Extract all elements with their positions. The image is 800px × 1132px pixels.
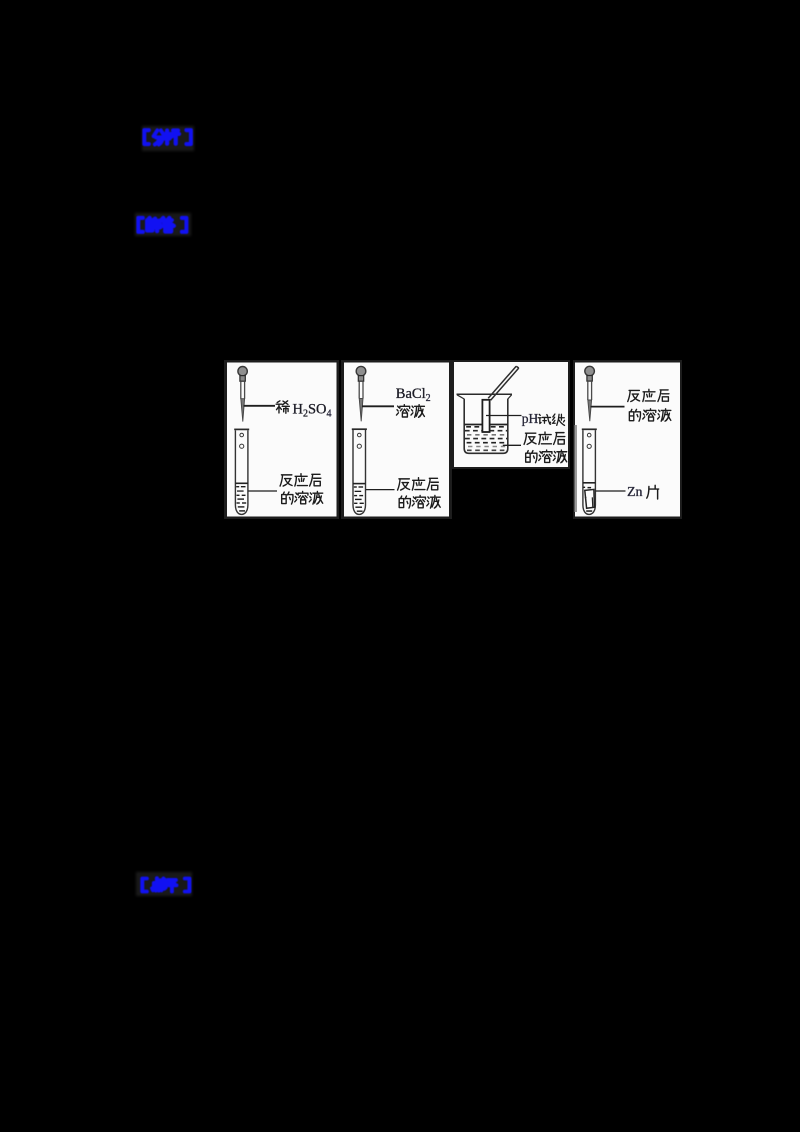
dropper D4 tube [588, 381, 592, 400]
leader line to 反应后的溶液 [248, 490, 277, 492]
liquid dashes T1 [236, 486, 246, 512]
test tube T1 body [235, 430, 248, 514]
panel 2 frame [341, 360, 452, 519]
test tube T4 rim [582, 428, 597, 430]
leader line to 的溶液 (P3) [503, 444, 521, 446]
svg-text:H2SO4: H2SO4 [293, 402, 332, 420]
Zn strip inner edge [585, 497, 593, 507]
dropper D4 liquid tip [588, 400, 592, 421]
beaker rim [457, 393, 513, 395]
dropper D2 collar [358, 376, 363, 382]
label 的溶液 (P1) [282, 491, 323, 504]
glass rod [488, 366, 519, 400]
blue marker 2 halo [135, 213, 191, 236]
dropper D4 bulb [585, 366, 595, 376]
panel 2 contents [352, 366, 440, 514]
test tube T1 rim [234, 428, 249, 430]
liquid level line T1 [235, 482, 248, 484]
bubbles in tube T4 [587, 433, 591, 437]
leader line to BaCl2 溶液 [362, 405, 394, 407]
liquid level line in beaker [464, 424, 508, 426]
blue marker 3 halo [136, 872, 192, 896]
beaker body [464, 399, 508, 454]
leader line to Zn 片 [596, 490, 626, 492]
blue marker 1 【分析】 [144, 130, 191, 144]
panel 1 frame [224, 360, 339, 519]
leader line to 反应后的溶液 (P2) [366, 489, 395, 491]
leader line to 稀 H2SO4 [244, 405, 276, 407]
pH paper strip [482, 400, 489, 432]
blue marker 2 【解答】 [138, 218, 186, 232]
liquid dashes T2 [354, 486, 364, 512]
dropper D1 bulb [238, 367, 247, 376]
label 反应后 (P3) [524, 432, 565, 444]
leader line to pH试纸 [486, 415, 522, 417]
dropper D2 tube [359, 381, 363, 398]
panel 4 contents [582, 366, 671, 514]
dropper D1 liquid tip [241, 399, 245, 422]
Zn strip [585, 489, 595, 508]
test tube T2 rim [352, 428, 367, 430]
svg-text:Zn: Zn [627, 485, 643, 500]
panel 3 frame [452, 360, 570, 469]
blue marker 3 【点评】 [142, 878, 189, 891]
small dashes above Zn [583, 487, 585, 488]
beaker left spout flare [457, 395, 464, 399]
panel 1 contents [234, 367, 331, 515]
liquid level line T4 [583, 482, 596, 484]
leader line to 反应后的溶液 (P4) [591, 406, 625, 408]
test tube T2 body [353, 430, 366, 514]
liquid level line T2 [353, 483, 366, 485]
beaker right flare [508, 395, 512, 399]
label 反应后 (P4) [628, 389, 669, 401]
svg-text:pH: pH [522, 411, 539, 426]
blue marker 1 halo [142, 126, 194, 151]
test tube T4 body [583, 430, 596, 514]
dropper D1 collar [240, 376, 245, 382]
label 的溶液 (P3) [526, 450, 567, 463]
panel 4 frame [573, 360, 682, 519]
bubbles in tube T2 [358, 433, 362, 437]
dropper D2 bulb [356, 366, 366, 376]
label 反应后 (P2) [398, 478, 439, 490]
bottom dash in tube T4 [586, 510, 592, 512]
label 稀 H2SO4 [276, 401, 289, 413]
label 的溶液 (P2) [399, 495, 440, 508]
dropper D4 collar [587, 376, 592, 382]
dropper D1 tube [241, 381, 245, 399]
label 反应后 (P1) [280, 474, 321, 486]
svg-text:BaCl2: BaCl2 [396, 386, 431, 404]
panel 3 contents [457, 366, 567, 462]
liquid dashes in beaker (7 rows) [465, 427, 507, 451]
bubbles in tube T1 [240, 433, 244, 437]
label 的溶液 (P4) [629, 409, 670, 421]
dropper D2 liquid tip [359, 398, 363, 421]
label 溶液 (P2) [396, 405, 424, 418]
